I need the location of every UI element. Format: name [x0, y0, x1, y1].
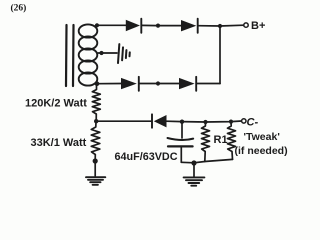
svg-text:R1: R1	[214, 134, 228, 146]
svg-text:33K/1 Watt: 33K/1 Watt	[31, 137, 87, 149]
svg-text:64uF/63VDC: 64uF/63VDC	[115, 151, 178, 163]
svg-text:(26): (26)	[11, 3, 27, 14]
svg-text:120K/2 Watt: 120K/2 Watt	[25, 97, 87, 109]
svg-text:B+: B+	[251, 20, 265, 32]
svg-text:'Tweak': 'Tweak'	[244, 131, 280, 143]
svg-text:(if needed): (if needed)	[235, 145, 288, 157]
svg-text:C-: C-	[247, 117, 259, 129]
